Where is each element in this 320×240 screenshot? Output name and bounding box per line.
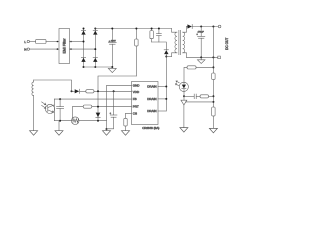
diode D7 xyxy=(96,113,101,118)
wire xyxy=(212,116,214,128)
svg-text:EMI Filter: EMI Filter xyxy=(62,38,66,54)
svg-text:DC OUT: DC OUT xyxy=(225,38,229,50)
wire top rail xyxy=(95,28,171,30)
wire aux to ground xyxy=(33,96,35,131)
svg-text:GND: GND xyxy=(133,84,141,88)
resistor R5 xyxy=(83,105,92,108)
svg-text:DRAIN: DRAIN xyxy=(147,85,156,89)
fuse F1 xyxy=(36,40,46,44)
node xyxy=(59,98,61,100)
capacitor C1 bulk xyxy=(108,28,116,69)
wire secondary bottom rail xyxy=(187,56,218,58)
diode D8 vdd xyxy=(72,89,86,93)
svg-text:DRAIN: DRAIN xyxy=(147,109,156,113)
wire GND pin xyxy=(107,85,132,129)
node xyxy=(71,90,73,92)
transformer T1 aux winding xyxy=(32,80,34,96)
svg-text:CS: CS xyxy=(133,112,137,116)
node xyxy=(200,56,202,58)
ground arrow xyxy=(30,131,38,136)
capacitor C5 output xyxy=(196,27,205,58)
ground arrow xyxy=(55,121,63,136)
transformer T1 secondary xyxy=(183,27,187,58)
ground arrow xyxy=(103,131,111,136)
wire FB pin xyxy=(54,98,131,100)
wire startup to vdd xyxy=(98,76,136,121)
node xyxy=(97,106,99,108)
wire xyxy=(72,107,83,121)
varistor RV1 xyxy=(71,117,79,125)
svg-text:PRT: PRT xyxy=(133,105,139,109)
transformer T1 primary xyxy=(172,29,177,57)
svg-text:N: N xyxy=(24,47,26,51)
resistor R1 startup xyxy=(135,28,138,77)
EMI filter block xyxy=(57,29,72,64)
light arrows xyxy=(42,102,46,105)
terminal DC OUT + xyxy=(218,25,221,28)
svg-text:400V: 400V xyxy=(111,40,117,42)
svg-text:CR6848 (SA): CR6848 (SA) xyxy=(142,126,159,130)
diode D4 xyxy=(93,58,97,62)
bridge rectifier xyxy=(81,28,97,69)
wire emitter rail xyxy=(54,120,71,122)
optocoupler U2 phototransistor xyxy=(42,99,55,121)
wire VDD pin xyxy=(94,90,132,92)
ground primary bus xyxy=(108,68,116,72)
diode D1 xyxy=(81,30,85,34)
resistor R3 xyxy=(86,90,94,93)
transformer T1 core xyxy=(179,30,181,54)
terminal DC OUT - xyxy=(218,56,221,59)
IC U1 CR6848 xyxy=(132,82,159,125)
wire xyxy=(46,41,59,43)
wire feedback +V line xyxy=(212,27,214,74)
ground arrow xyxy=(180,128,188,133)
capacitor C6 comp xyxy=(184,94,200,99)
wire bottom rail xyxy=(84,66,113,68)
resistor R2 clamp xyxy=(150,28,153,43)
svg-text:L: L xyxy=(24,40,26,44)
node xyxy=(200,26,202,28)
terminal N xyxy=(24,47,59,51)
node xyxy=(183,95,185,97)
wire CS pin xyxy=(126,113,132,118)
TL431 U3 xyxy=(181,96,214,127)
wire drain stubs xyxy=(158,86,166,88)
svg-text:FB: FB xyxy=(133,97,137,101)
wire clamp join xyxy=(152,42,167,50)
wire drain node to primary xyxy=(166,56,171,58)
wire aux feed xyxy=(34,80,72,91)
node xyxy=(83,41,85,43)
wire xyxy=(212,80,214,108)
resistor R9 lower divider xyxy=(212,107,215,116)
node xyxy=(212,66,214,68)
wire xyxy=(70,48,96,50)
diode D6 clamp xyxy=(164,50,168,54)
resistor R8 upper divider xyxy=(212,73,215,80)
ground secondary xyxy=(197,57,205,63)
svg-text:470uF: 470uF xyxy=(197,32,204,34)
svg-text:DRAIN: DRAIN xyxy=(147,97,156,101)
terminal L xyxy=(24,40,35,44)
svg-text:+: + xyxy=(110,112,112,115)
capacitor C4 fb xyxy=(57,99,64,121)
resistor R6 sense xyxy=(124,118,127,126)
ground arrow xyxy=(209,128,217,133)
optocoupler U2 LED xyxy=(175,81,188,97)
node xyxy=(106,128,108,130)
wire PRT pin xyxy=(92,106,132,108)
diode D2 xyxy=(81,58,85,62)
diode D5 output rectifier xyxy=(187,24,219,28)
svg-text:VDD: VDD xyxy=(133,90,140,94)
capacitor C2 clamp xyxy=(156,28,161,43)
wire xyxy=(125,126,127,131)
wire drain bus xyxy=(165,54,167,111)
node drain xyxy=(165,56,167,58)
node xyxy=(165,86,167,88)
ground arrow xyxy=(122,131,130,136)
capacitor C3 vdd xyxy=(107,91,118,129)
resistor R10 comp xyxy=(200,95,213,98)
node xyxy=(59,120,61,122)
wire xyxy=(70,41,84,43)
diode D3 xyxy=(93,30,97,34)
light arrows xyxy=(176,81,179,83)
resistor R7 LED series xyxy=(184,66,213,83)
